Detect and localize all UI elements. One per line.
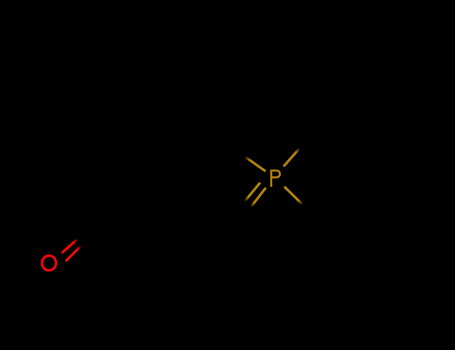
atom P (phosphorus) [271, 170, 280, 187]
atom O (carbonyl oxygen) [42, 256, 56, 271]
bond P=C double down-left, line 2 (gold half toward P) [251, 188, 265, 207]
bond C=O double, line 2 (red half toward O) [66, 246, 81, 261]
bond P-phenyl up-right (gold half toward P) [284, 149, 299, 167]
bond P=C double down-left, line 1 (gold half toward P) [245, 183, 260, 201]
bond P-phenyl down-right (gold half toward P) [284, 187, 302, 204]
bond C=O double, line 1 (red half toward O) [62, 240, 77, 254]
bond P-C up-left (gold half toward P) [246, 157, 266, 171]
